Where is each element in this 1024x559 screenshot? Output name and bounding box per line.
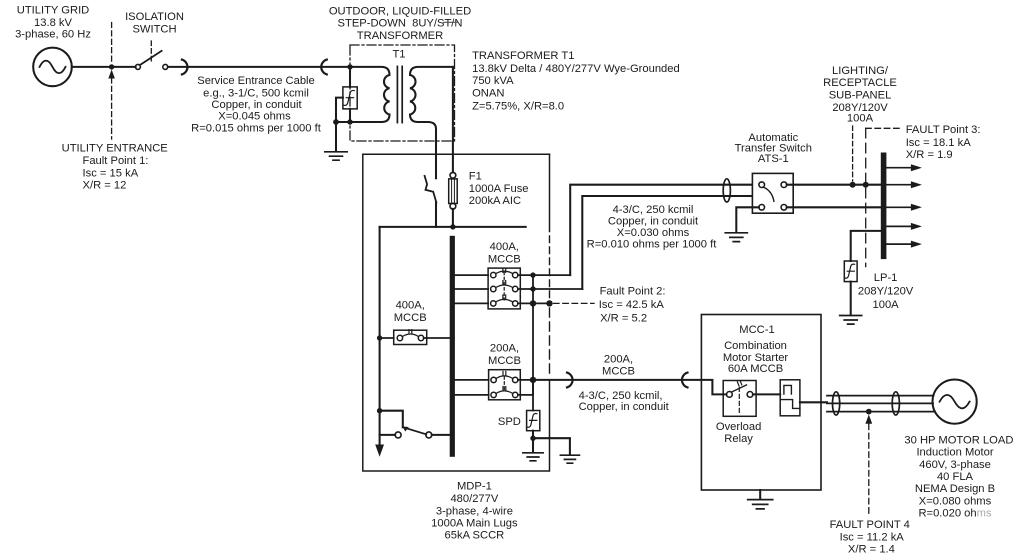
svg-text:MCCB: MCCB [488, 253, 521, 265]
SPD ground lead [532, 431, 534, 452]
svg-text:RECEPTACLE: RECEPTACLE [823, 77, 897, 89]
fault point 1 callout dashed line [111, 23, 113, 63]
LP-1 surge arrester [844, 261, 857, 282]
branch arrow 3 [886, 206, 913, 208]
svg-text:3-phase, 4-wire: 3-phase, 4-wire [436, 505, 513, 517]
svg-text:FAULT POINT 4: FAULT POINT 4 [830, 519, 910, 531]
svg-text:X/R = 1.9: X/R = 1.9 [906, 149, 953, 161]
MDP-1 enclosure [363, 154, 550, 471]
label: motor load [904, 434, 1013, 519]
svg-text:200A,: 200A, [490, 343, 519, 355]
svg-text:Fault Point 1:: Fault Point 1: [83, 155, 149, 167]
feeder arrow [375, 445, 384, 457]
ground: SPD [523, 453, 543, 461]
svg-text:e.g., 3-1/C, 500 kcmil: e.g., 3-1/C, 500 kcmil [203, 87, 309, 99]
svg-text:MCCB: MCCB [488, 355, 521, 367]
LP-1 arrester tap [851, 231, 881, 261]
svg-text:MCCB: MCCB [602, 365, 635, 377]
svg-text:200A,: 200A, [604, 353, 633, 365]
motor M1 [933, 380, 977, 424]
label: lighting sub-panel [823, 65, 897, 125]
svg-text:F1: F1 [469, 171, 482, 183]
label: 200A MCCB (in MDP) [488, 343, 521, 368]
CB2 output wire [424, 337, 450, 339]
ATS emergency lead to ground [736, 207, 759, 232]
svg-text:750 kVA: 750 kVA [472, 75, 514, 87]
CB3 pole tie [503, 377, 505, 392]
CB3 output wires [518, 380, 533, 395]
surge arrester A1 [343, 87, 357, 109]
svg-text:R=0.010 ohms per 1000 ft: R=0.010 ohms per 1000 ft [587, 238, 718, 250]
label: 400A MCCB (3-pole) [488, 241, 521, 265]
branch arrow 5 [886, 243, 913, 245]
svg-text:T1: T1 [392, 49, 405, 61]
60A MCCB box [723, 381, 756, 417]
svg-text:ATS-1: ATS-1 [758, 153, 789, 165]
svg-text:400A,: 400A, [490, 241, 519, 253]
svg-text:TRANSFORMER: TRANSFORMER [357, 30, 443, 42]
label: transformer data [472, 50, 680, 113]
label: ATS feeder cable [587, 204, 718, 251]
label: LP-1 [858, 272, 914, 311]
svg-text:SPD: SPD [498, 416, 524, 428]
node: bottom switch tap [377, 408, 382, 413]
svg-text:Isc = 18.1 kA: Isc = 18.1 kA [906, 137, 972, 149]
motor feeder 3-phase wires [827, 396, 934, 412]
busbar MDP-1 [450, 236, 455, 457]
svg-text:ONAN: ONAN [472, 88, 504, 100]
CB3 pole 2 [491, 392, 496, 397]
svg-text:X=0.080 ohms: X=0.080 ohms [919, 495, 992, 507]
SPD tap riser [532, 275, 534, 410]
CB1 pole 1 [491, 272, 496, 277]
transformer T1 secondary winding [410, 67, 453, 178]
wire: switch to transformer primary [168, 66, 350, 68]
svg-text:Isc = 42.5 kA: Isc = 42.5 kA [599, 299, 665, 311]
LP-1 arrester ground lead [850, 282, 852, 315]
svg-text:Induction Motor: Induction Motor [916, 447, 993, 459]
svg-text:30 HP MOTOR LOAD: 30 HP MOTOR LOAD [904, 434, 1013, 446]
surge arrester A1 drop [349, 67, 351, 87]
wire: main lug horizontal [380, 226, 526, 228]
svg-text:MCCB: MCCB [394, 312, 427, 324]
svg-text:MDP-1: MDP-1 [457, 480, 492, 492]
wire: secondary to fuse [452, 67, 454, 172]
svg-text:X/R = 5.2: X/R = 5.2 [600, 313, 647, 325]
nodes on ATS output [850, 182, 856, 188]
isolation switch S1 [135, 64, 140, 69]
node: transformer primary tap [347, 64, 352, 69]
utility source G1 [33, 48, 72, 87]
CB1 pole 2 [491, 286, 496, 291]
svg-text:200kA AIC: 200kA AIC [469, 195, 521, 207]
svg-text:X=0.030 ohms: X=0.030 ohms [617, 227, 690, 239]
svg-text:SWITCH: SWITCH [132, 23, 176, 35]
transformer T1 enclosure (dash-dot) [350, 45, 455, 141]
svg-text:LP-1: LP-1 [874, 272, 898, 284]
svg-text:Isc = 11.2 kA: Isc = 11.2 kA [840, 531, 905, 543]
label: 400A MCCB (left) [394, 300, 427, 324]
disconnect switch (main) [435, 202, 437, 227]
label: MDP-1 [431, 480, 518, 541]
200A MCCB CB3 input stubs [455, 380, 489, 395]
svg-text:1000A Main Lugs: 1000A Main Lugs [431, 517, 518, 529]
wire: riser to ATS line 1 [570, 185, 759, 275]
svg-text:Overload: Overload [716, 421, 761, 433]
svg-text:R=0.015 ohms per 1000 ft: R=0.015 ohms per 1000 ft [191, 122, 322, 134]
ATS blade arc [764, 187, 774, 201]
ATS terminals [759, 182, 765, 188]
conduit ellipse (ATS feeder) [723, 179, 730, 202]
cable start arc (200A feeder) [567, 373, 573, 388]
nodes on CB1 outputs [530, 272, 535, 277]
CB1 output wires [518, 275, 582, 303]
svg-text:480/277V: 480/277V [450, 493, 498, 505]
fault point 4 dashed callout with arrow [868, 424, 870, 515]
ATS-1 box [752, 173, 793, 213]
svg-text:X/R = 1.4: X/R = 1.4 [848, 544, 895, 556]
svg-text:4-3/C, 250 kcmil: 4-3/C, 250 kcmil [613, 204, 694, 216]
svg-text:100A: 100A [847, 112, 874, 124]
node: fault point 4 [866, 409, 872, 415]
feeder switch blade [403, 427, 426, 434]
fault point 2 dashed callout [554, 302, 595, 304]
200A MCCB CB3 box [489, 370, 521, 400]
label: utility grid [15, 4, 91, 40]
svg-text:3-phase, 60 Hz: 3-phase, 60 Hz [15, 29, 91, 41]
label: service entrance cable [191, 75, 322, 134]
cable end arc (200A feeder) [682, 373, 688, 388]
svg-text:Isc = 15 kA: Isc = 15 kA [83, 167, 139, 179]
ground: ATS [725, 233, 747, 242]
cable end arc [321, 60, 327, 75]
200A feeder wire to MCC-1 [533, 380, 726, 395]
svg-text:Copper, in conduit: Copper, in conduit [579, 401, 670, 413]
node: 200A feeder tap [530, 377, 536, 383]
node: arrester/primary bottom [333, 119, 339, 125]
SPD box [527, 411, 540, 431]
svg-text:60A MCCB: 60A MCCB [728, 363, 783, 375]
label: overload relay [716, 421, 761, 445]
ground: MCC-1 [759, 490, 761, 499]
60A MCCB blade [732, 385, 747, 392]
transformer T1 primary winding [335, 67, 389, 122]
svg-text:NEMA Design B: NEMA Design B [915, 483, 995, 495]
arrester bottom lead [349, 109, 351, 122]
svg-text:ISOLATION: ISOLATION [125, 11, 184, 23]
svg-text:Copper, in conduit: Copper, in conduit [211, 99, 302, 111]
400A MCCB CB1 box [488, 268, 520, 309]
svg-text:13.8kV Delta / 480Y/277V Wye-G: 13.8kV Delta / 480Y/277V Wye-Grounded [472, 63, 680, 75]
400A MCCB CB2 box [394, 330, 427, 344]
MCC-1 box [701, 315, 821, 491]
svg-text:40 FLA: 40 FLA [937, 471, 974, 483]
svg-text:Relay: Relay [724, 433, 753, 445]
node: left feeder tap [377, 335, 382, 340]
wire: breaker to overload relay [753, 393, 780, 395]
ground: transformer [335, 122, 337, 151]
svg-text:LIGHTING/: LIGHTING/ [832, 65, 889, 77]
svg-text:Motor Starter: Motor Starter [723, 352, 789, 364]
branch arrow 1 [886, 167, 913, 169]
svg-text:460V, 3-phase: 460V, 3-phase [919, 459, 991, 471]
svg-text:R=0.020 ohms: R=0.020 ohms [918, 508, 991, 520]
conduit ellipse 2 (motor) [892, 392, 899, 415]
branch arrow 4 [886, 225, 913, 227]
svg-text:400A,: 400A, [396, 300, 425, 312]
node: main lug junction [450, 224, 455, 229]
svg-text:Copper, in conduit: Copper, in conduit [608, 215, 699, 227]
wire to second ground [533, 438, 570, 454]
svg-text:UTILITY ENTRANCE: UTILITY ENTRANCE [62, 143, 168, 155]
CB1 pole 3 [491, 301, 496, 306]
label: isolation switch [125, 11, 184, 35]
svg-text:Z=5.75%, X/R=8.0: Z=5.75%, X/R=8.0 [472, 101, 564, 113]
svg-text:1000A Fuse: 1000A Fuse [469, 183, 529, 195]
400A MCCB CB2 (left) input [380, 337, 394, 339]
label: ATS-1 [735, 132, 812, 165]
400A MCCB CB1 (3-pole) input stubs [455, 275, 488, 303]
svg-text:FAULT Point 3:: FAULT Point 3: [906, 124, 981, 136]
transformer T1 core [396, 66, 398, 122]
wire: relay output [800, 401, 827, 403]
svg-text:SUB-PANEL: SUB-PANEL [829, 90, 892, 102]
node: utility entrance junction [109, 64, 114, 69]
svg-text:65kA SCCR: 65kA SCCR [445, 530, 505, 542]
label: transformer heading [329, 6, 471, 42]
svg-text:X/R = 12: X/R = 12 [83, 180, 127, 192]
strikethrough mark on ST [444, 21, 459, 23]
conduit ellipse 1 (motor) [833, 392, 840, 415]
CB3 pole 1 [491, 377, 496, 382]
label: MCC-1 [723, 324, 789, 375]
svg-text:Combination: Combination [724, 340, 787, 352]
overload relay OL [780, 380, 800, 416]
CB1 pole tie (dashed) [503, 272, 505, 300]
svg-text:208Y/120V: 208Y/120V [858, 286, 914, 298]
svg-text:TRANSFORMER T1: TRANSFORMER T1 [472, 50, 574, 62]
label: 200A MCCB feeder [602, 353, 635, 377]
arrester ground stub [336, 98, 343, 122]
svg-text:13.8 kV: 13.8 kV [34, 17, 72, 29]
wire: riser to ATS line 2 [582, 196, 752, 289]
svg-text:Service Entrance Cable: Service Entrance Cable [197, 75, 315, 87]
svg-text:UTILITY GRID: UTILITY GRID [17, 4, 90, 16]
wire: utility to isolation switch [72, 66, 136, 68]
wire: left feeder riser [379, 227, 381, 446]
svg-text:MCC-1: MCC-1 [739, 324, 774, 336]
svg-text:100A: 100A [873, 299, 900, 311]
cable start arc [182, 60, 188, 75]
panel busbar LP-1 [881, 153, 887, 260]
fault point 3 long-dash line [865, 128, 867, 266]
svg-text:STEP-DOWN 8UY/ST/N: STEP-DOWN 8UY/ST/N [338, 17, 463, 29]
ground: MDP neutral [560, 455, 579, 463]
ATS output wires to panel bus [787, 185, 881, 208]
branch arrow 2 [886, 184, 913, 186]
sub-panel callout dashed line [852, 126, 854, 181]
60A MCCB trip tie (dashed) [738, 387, 740, 414]
label: fault point 4 [830, 519, 910, 556]
ground: LP-1 [840, 316, 862, 325]
svg-text:OUTDOOR, LIQUID-FILLED: OUTDOOR, LIQUID-FILLED [329, 6, 471, 18]
svg-text:Fault Point 2:: Fault Point 2: [600, 285, 666, 297]
fuse F1 [450, 172, 456, 178]
svg-text:X=0.045 ohms: X=0.045 ohms [218, 110, 291, 122]
